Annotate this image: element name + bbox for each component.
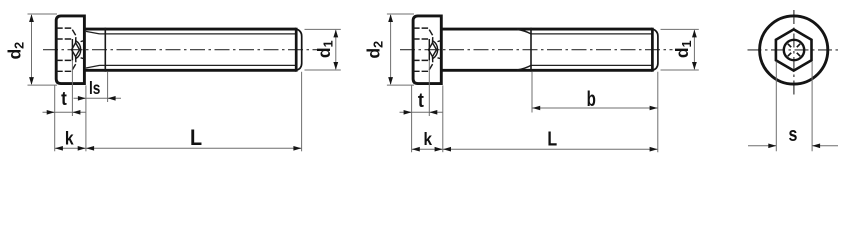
dimension t arrows screw 1 — [47, 110, 81, 115]
screw 2 socket engagement stub lower — [438, 57, 442, 60]
dimension t arrows screw 2 — [404, 110, 438, 115]
dimension t line screw 2 — [400, 111, 443, 113]
svg-text:ls: ls — [89, 80, 101, 99]
screw 1 socket bottom — [71, 39, 73, 60]
screw 2 hex socket upper corner line — [413, 28, 433, 43]
dimension L arrows screw 2 — [443, 147, 658, 152]
svg-text:d1: d1 — [314, 40, 336, 58]
svg-text:L: L — [190, 126, 202, 150]
end view head outline circle — [760, 16, 828, 84]
screw 2 shank top outline — [441, 28, 652, 31]
dimension d2 extension lines screw 1 — [28, 14, 58, 85]
screw 1 full-thread boundary line — [104, 28, 106, 72]
dimension t extension lines screw 2 — [412, 60, 430, 152]
screw 2 thread runout bottom — [517, 65, 531, 70]
end view chamfer tick NW — [788, 44, 791, 47]
dimension k arrows screw 1 — [55, 146, 86, 151]
dimension d1 line screw 2 — [693, 30, 695, 69]
dimension L line screw 2 — [443, 148, 658, 150]
dimension k arrows screw 2 — [412, 147, 443, 152]
screw 1 hex socket lower flat line — [56, 59, 72, 61]
svg-text:t: t — [418, 90, 425, 112]
screw 1 socket engagement stub upper — [81, 40, 85, 43]
svg-text:d2: d2 — [5, 42, 27, 60]
end view chamfer tick SW — [788, 53, 791, 56]
dimension k extension line screw 1 — [85, 85, 87, 151]
screw 1 socket cone point — [72, 43, 80, 57]
screw 2 hex socket lower corner line — [413, 57, 433, 72]
dimension d1 arrows screw 1 — [333, 30, 338, 70]
dimension k line screw 1 — [55, 147, 86, 149]
svg-text:d2: d2 — [364, 41, 386, 59]
screw 1 centerline — [43, 49, 318, 51]
dimension ls line screw 1 — [74, 97, 122, 99]
dimension k extension line screw 2 — [442, 85, 444, 152]
svg-text:k: k — [65, 127, 74, 149]
dimension d1 arrows screw 2 — [692, 30, 697, 70]
dimension b arrows screw 2 — [532, 106, 657, 111]
dimension t line screw 1 — [43, 111, 86, 113]
screw 1 hex socket lower corner line — [56, 57, 76, 72]
screw 2 thread minor bottom line — [531, 64, 652, 66]
dimension L line screw 1 — [86, 147, 302, 149]
dimension ls arrows screw 1 — [78, 96, 116, 101]
screw 2 hex socket lower flat line — [413, 59, 429, 61]
screw 2 socket engagement stub upper — [438, 40, 442, 43]
screw 1 socket cone arc — [76, 41, 81, 59]
svg-text:b: b — [587, 86, 596, 110]
dimension b line screw 2 — [532, 107, 658, 109]
dimension d1 extension lines screw 2 — [661, 29, 699, 70]
dimension d2 line screw 2 — [390, 15, 392, 84]
screw 2 socket cone point — [429, 43, 437, 57]
dimension s arrows — [768, 144, 820, 149]
screw 1 thread minor bottom line — [100, 64, 296, 66]
screw 1 tip end outline — [296, 29, 302, 70]
screw 1 thread runout bottom — [86, 65, 100, 68]
screw 2 thread minor top line — [531, 33, 652, 35]
screw 1 shank bottom outline — [84, 69, 296, 72]
end view hex socket — [776, 29, 812, 70]
screw 2 socket cone arc — [433, 41, 438, 59]
svg-text:t: t — [61, 88, 67, 109]
dimension d2 line screw 1 — [31, 15, 33, 84]
screw 1 thread minor top line — [100, 33, 296, 35]
dimension d1 extension lines screw 1 — [305, 29, 341, 70]
screw 2 thread runout top — [517, 29, 531, 34]
screw 2 hex socket upper flat line — [413, 38, 429, 40]
screw 1 head — [56, 16, 84, 84]
screw 2 full-thread boundary line — [530, 28, 532, 72]
dimension s extension lines — [776, 62, 812, 152]
dimension d1 line screw 1 — [335, 30, 337, 69]
dimension k line screw 2 — [412, 148, 443, 150]
end view horizontal centerline — [748, 49, 839, 51]
svg-text:s: s — [789, 123, 798, 145]
dimension ls extension line screw 1 — [107, 72, 109, 102]
screw 2 centerline — [400, 49, 673, 51]
screw 2 shank bottom outline — [441, 69, 652, 72]
dimension L arrows screw 1 — [86, 146, 301, 151]
screw 2 tip chamfer line — [651, 28, 654, 72]
screw 2 socket bottom — [428, 39, 430, 60]
screw 1 shank top outline — [84, 28, 296, 31]
svg-text:d1: d1 — [672, 40, 694, 58]
screw 1 hex socket upper corner line — [56, 28, 76, 43]
end view socket chamfer circle — [784, 40, 804, 60]
end view chamfer tick NE — [797, 44, 800, 47]
screw 2 tip end outline — [652, 29, 658, 70]
end view chamfer tick SE — [797, 53, 800, 56]
end view vertical centerline — [793, 10, 795, 98]
dimension s line — [748, 145, 838, 147]
dimension d2 arrows screw 1 — [29, 14, 34, 85]
svg-text:k: k — [424, 129, 433, 149]
dimension t extension lines screw 1 — [55, 60, 73, 151]
screw 2 head — [413, 16, 441, 84]
dimension b extension lines screw 2 — [532, 72, 658, 152]
screw 1 socket engagement stub lower — [81, 57, 85, 60]
dimension d2 arrows screw 2 — [388, 14, 393, 85]
screw 1 thread runout top — [86, 31, 100, 34]
screw 1 tip chamfer line — [295, 28, 298, 72]
dimension L extension line screw 1 — [301, 72, 303, 152]
dimension d2 extension lines screw 2 — [387, 14, 414, 85]
screw 1 hex socket upper flat line — [56, 38, 72, 40]
svg-text:L: L — [547, 128, 557, 150]
